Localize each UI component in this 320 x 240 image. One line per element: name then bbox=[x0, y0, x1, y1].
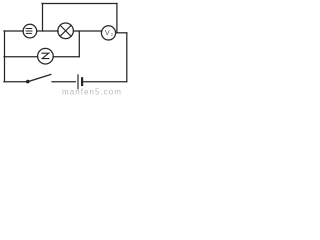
wire bypass right vertical bbox=[116, 4, 118, 33]
wire main row: meter G to lamp bbox=[37, 30, 59, 32]
svg-text:2: 2 bbox=[111, 32, 114, 37]
meter Z (circle with Z glyph) bbox=[38, 48, 54, 64]
wire bypass left vertical bbox=[42, 4, 44, 32]
wire bottom row: left edge to switch dot bbox=[4, 81, 27, 83]
battery: short thick plate bbox=[81, 78, 83, 85]
lamp L (circle with X) bbox=[58, 23, 74, 39]
wire main row: lamp to voltmeter bbox=[73, 30, 101, 32]
wire right vertical edge bbox=[126, 33, 128, 82]
svg-text:V: V bbox=[105, 28, 110, 37]
wire bottom row: battery to right edge bbox=[83, 81, 127, 83]
switch S (open blade) bbox=[28, 74, 51, 81]
switch pivot junction dot bbox=[26, 80, 30, 84]
wire top bypass horizontal bbox=[42, 3, 117, 5]
wire middle row: meter Z to branch vertical bbox=[53, 56, 79, 58]
voltmeter V2 bbox=[101, 26, 115, 40]
wire left vertical edge bbox=[4, 31, 6, 82]
wire branch vertical at node x78 bbox=[78, 31, 80, 57]
wire main row: left edge to meter G bbox=[4, 30, 23, 32]
wire bottom row: switch to battery bbox=[52, 81, 75, 83]
wire main row: voltmeter to right edge bbox=[116, 32, 127, 34]
svg-text:manfen5.com: manfen5.com bbox=[62, 88, 122, 97]
battery: long plate bbox=[77, 75, 79, 89]
meter G (circle with three bars) bbox=[23, 24, 37, 38]
wire middle row: left edge to meter Z bbox=[4, 56, 38, 58]
